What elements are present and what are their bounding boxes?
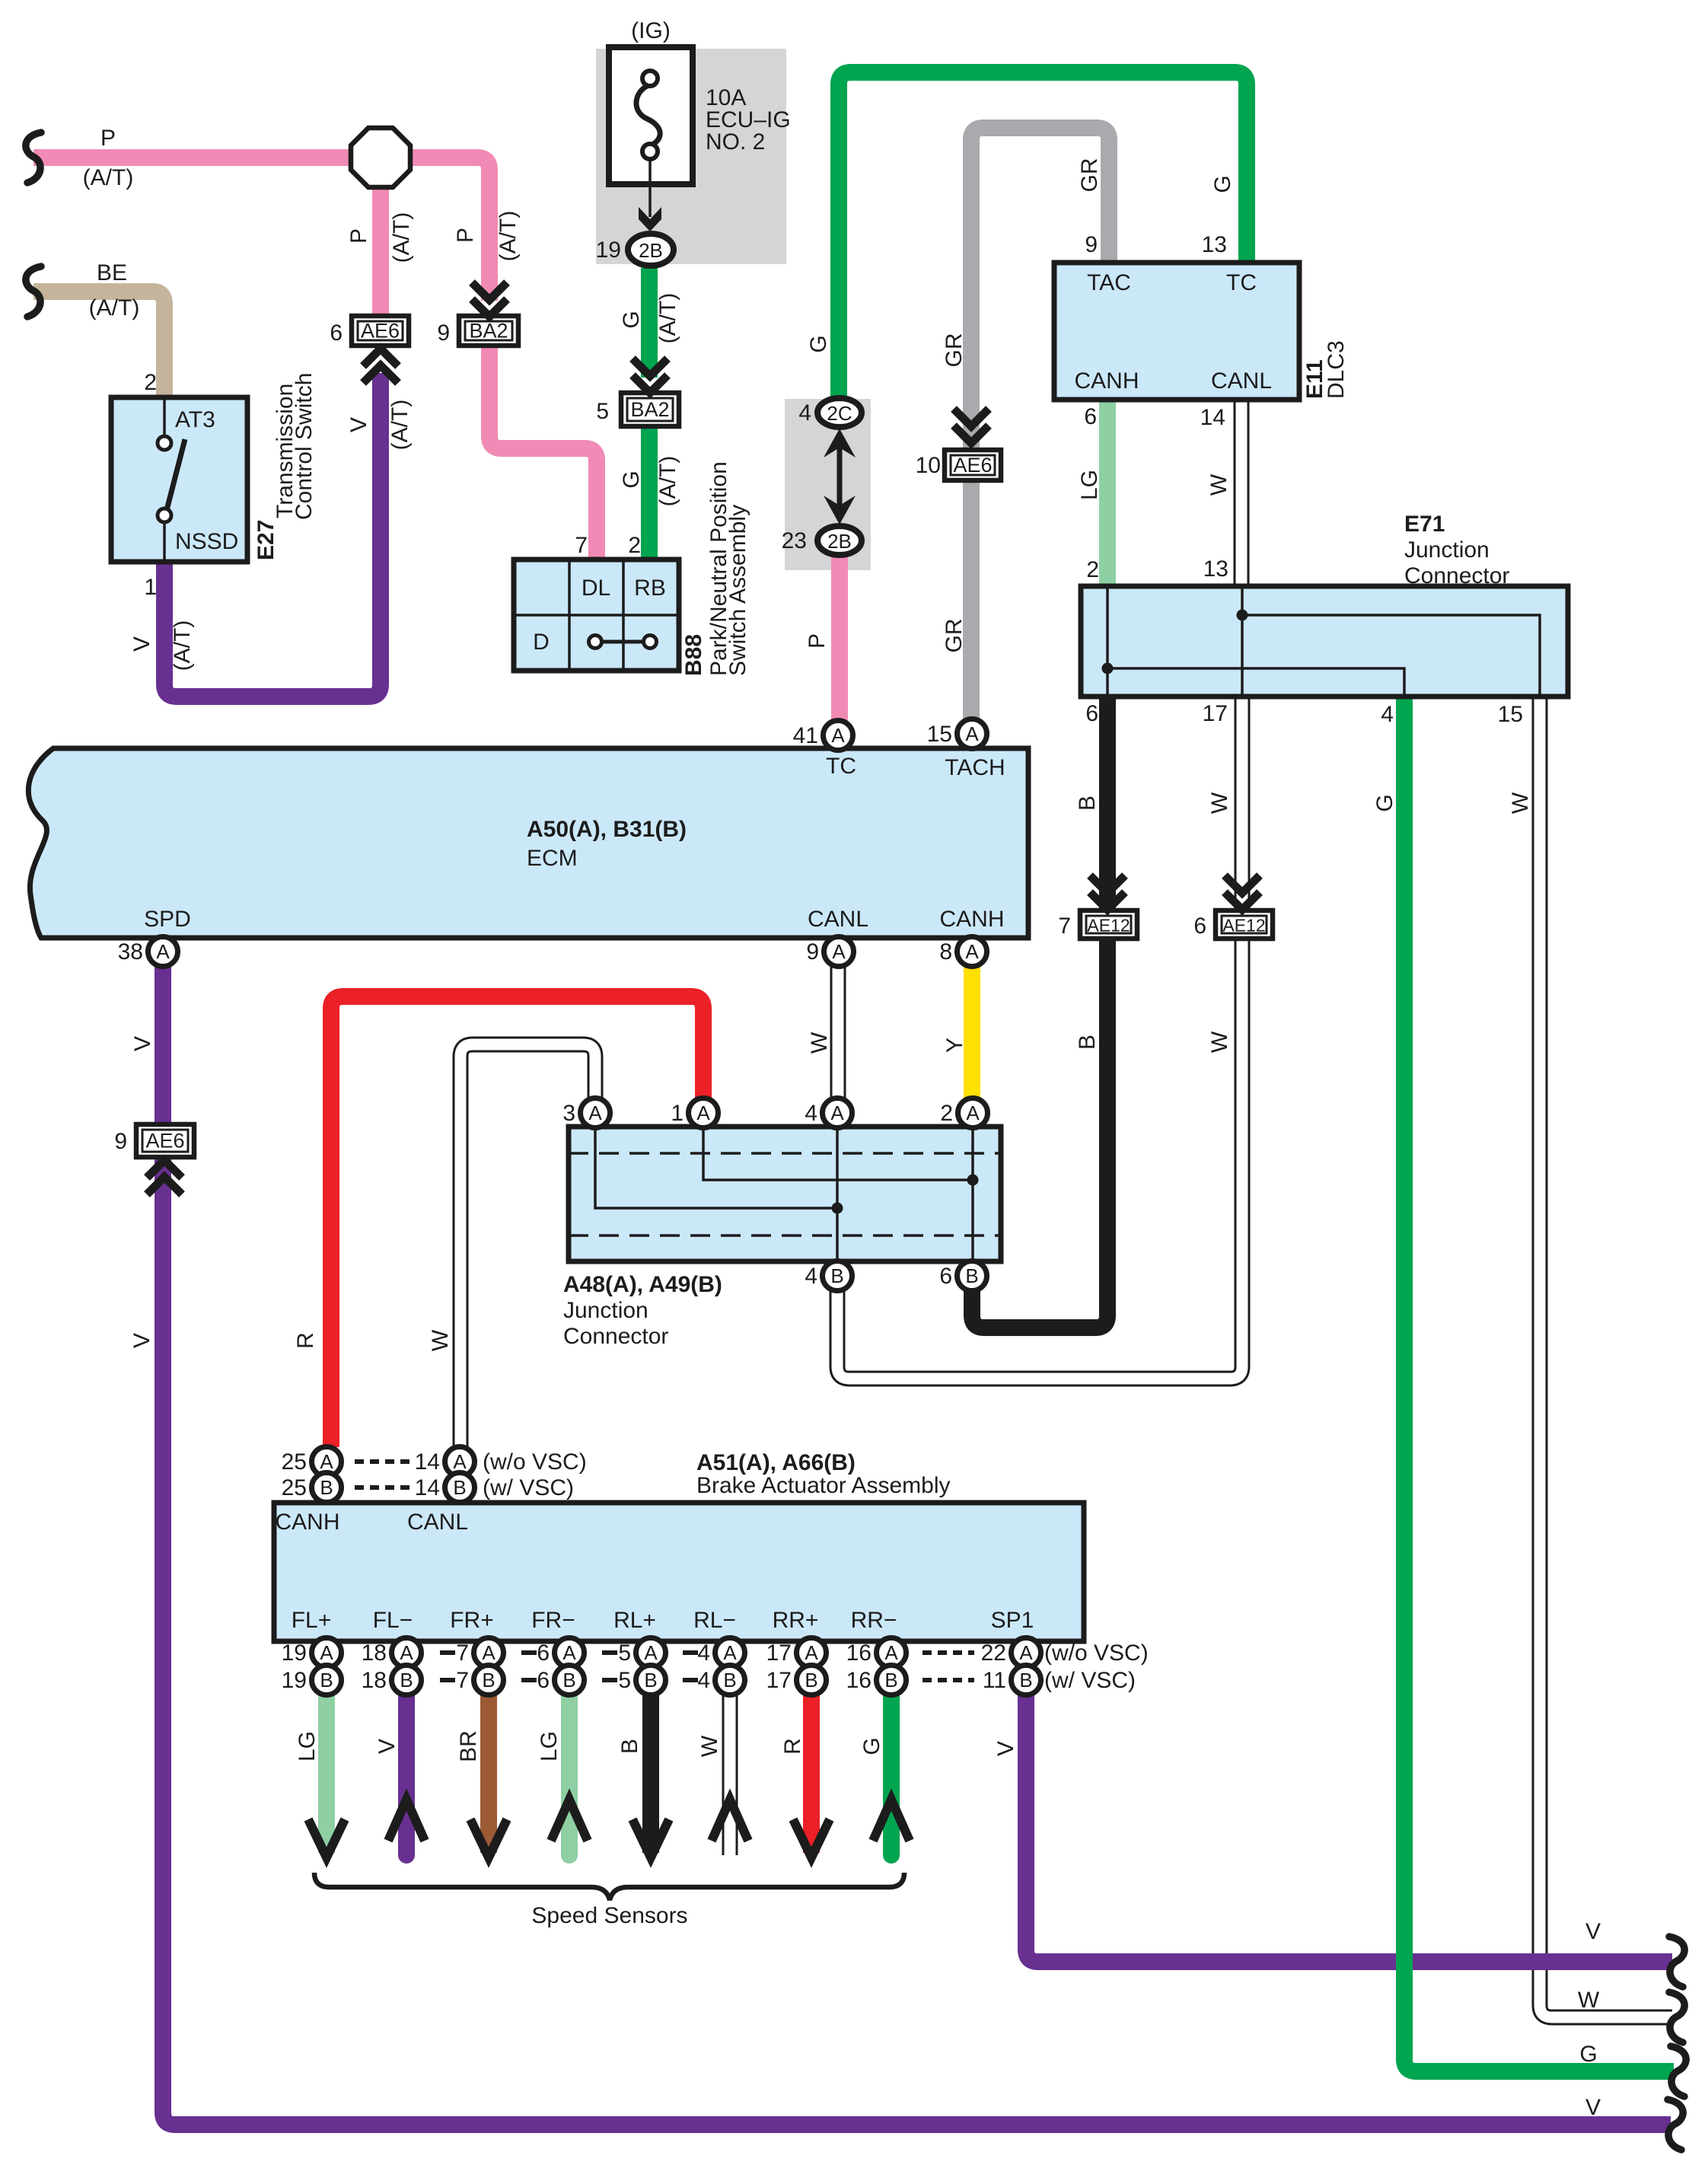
svg-text:A: A (965, 722, 979, 745)
wire V from ECM SPD pin 38A through AE6 pin 9 to right edge (163, 966, 1671, 2125)
svg-text:(w/ VSC): (w/ VSC) (483, 1475, 574, 1500)
dash 7A-6A B row (521, 1678, 537, 1682)
dash 6A-5A B row (602, 1678, 617, 1682)
wire P (A/T) from octagon down to connector AE6 pin 6 (372, 187, 389, 316)
wire BR from A51 FR+ pin 7B to speed sensor (480, 1695, 497, 1853)
A51 FR- pin 6 A (537, 1638, 584, 1668)
svg-text:6: 6 (1193, 914, 1206, 939)
svg-text:GR: GR (942, 619, 967, 653)
svg-text:TACH: TACH (945, 755, 1005, 780)
connector AE6 pin 6 box (352, 316, 409, 346)
brake actuator assembly A51/A66 box (274, 1503, 1084, 1641)
svg-text:2: 2 (628, 533, 641, 558)
svg-text:3: 3 (562, 1101, 575, 1126)
svg-text:AE12: AE12 (1222, 916, 1265, 936)
svg-text:A: A (644, 1641, 658, 1664)
svg-text:W: W (428, 1329, 453, 1351)
svg-text:18: 18 (362, 1640, 387, 1666)
svg-text:6: 6 (330, 320, 343, 346)
svg-text:A: A (830, 1102, 844, 1124)
A51 RL+ pin 5 B (618, 1666, 665, 1695)
svg-text:V: V (129, 1333, 155, 1348)
fuse output lead (648, 159, 652, 217)
svg-text:V: V (374, 1739, 400, 1754)
svg-text:CANL: CANL (808, 907, 868, 932)
wire GR from E11 pin 9 TAC to connector AE6 pin 10 and ECM pin 15 (971, 128, 1109, 719)
svg-text:4: 4 (697, 1668, 710, 1693)
connector oval 4 2C (817, 398, 862, 427)
B88 switch link (595, 640, 650, 644)
svg-text:Junction: Junction (1404, 537, 1490, 563)
svg-text:V: V (129, 636, 155, 652)
svg-text:(A/T): (A/T) (389, 212, 414, 263)
svg-text:Connector: Connector (1404, 563, 1509, 588)
svg-text:B: B (482, 1669, 495, 1692)
E27 pin 1 internal stub (163, 522, 166, 562)
svg-text:B: B (805, 1669, 817, 1692)
svg-text:SPD: SPD (144, 907, 191, 932)
svg-text:Y: Y (942, 1038, 967, 1053)
svg-text:AE6: AE6 (361, 320, 400, 343)
svg-text:P: P (805, 633, 830, 649)
svg-text:LG: LG (537, 1731, 562, 1762)
E71 internal bus pin13-pin17 (1241, 586, 1244, 697)
svg-text:7: 7 (456, 1640, 469, 1666)
connector AE12 pin 6 box (1216, 910, 1273, 939)
A51 RL- pin 4 B (697, 1666, 744, 1695)
svg-text:B: B (320, 1669, 333, 1692)
svg-text:A48(A), A49(B): A48(A), A49(B) (563, 1272, 722, 1297)
wire break squiggle V right upper (1669, 1937, 1684, 1987)
svg-text:A: A (966, 1102, 980, 1124)
svg-text:B88: B88 (681, 634, 706, 676)
A48 pin 4 A (805, 1098, 852, 1128)
svg-text:(A/T): (A/T) (655, 293, 680, 344)
A48 internal link 4A-4B (836, 1127, 839, 1261)
ECM pin 15 A (927, 719, 987, 749)
wire V (A/T) from E27 pin 1 to connector AE6 pin 6 (164, 373, 381, 697)
B88 grid column line 1 (568, 560, 571, 671)
fuse 10A ECU-IG NO.2 body (609, 47, 693, 184)
svg-text:BA2: BA2 (630, 398, 669, 421)
svg-text:17: 17 (1203, 701, 1228, 726)
svg-text:Speed Sensors: Speed Sensors (531, 1903, 687, 1928)
svg-text:41: 41 (793, 723, 818, 748)
svg-text:RR−: RR− (851, 1608, 897, 1633)
wire W from A51 RL- pin 4B to speed sensor (722, 1695, 738, 1855)
svg-text:5: 5 (596, 399, 609, 424)
connector AE12 pin 7 box (1080, 910, 1137, 939)
svg-text:Control Switch: Control Switch (292, 373, 317, 520)
A48 pin 2 A (940, 1098, 987, 1128)
svg-text:7: 7 (575, 533, 588, 558)
A51 RL+ pin 5 A (618, 1638, 665, 1668)
svg-text:4: 4 (805, 1101, 817, 1126)
svg-text:A: A (320, 1450, 333, 1473)
svg-text:Junction: Junction (563, 1298, 648, 1323)
svg-text:6: 6 (1084, 404, 1097, 429)
park/neutral position switch B88 box (514, 560, 679, 671)
svg-text:2B: 2B (827, 530, 852, 553)
svg-text:6: 6 (537, 1668, 550, 1693)
svg-text:CANL: CANL (1211, 368, 1272, 394)
double chevron into AE6 pin 10 (954, 409, 989, 443)
svg-text:38: 38 (118, 939, 143, 965)
svg-text:CANH: CANH (275, 1510, 339, 1535)
svg-text:DLC3: DLC3 (1324, 340, 1349, 399)
A48 pin 4 B (805, 1261, 852, 1291)
A51 pin 14 A (415, 1447, 475, 1477)
svg-text:D: D (533, 630, 550, 655)
svg-text:G: G (1372, 794, 1397, 811)
svg-text:A: A (831, 724, 845, 747)
dash 6A-5A (602, 1650, 617, 1655)
speed sensor arrow RR+ (793, 1819, 830, 1857)
speed sensor arrow RL+ (633, 1819, 669, 1857)
double chevron into BA2 pin 5 (633, 359, 668, 393)
svg-text:(A/T): (A/T) (655, 456, 680, 507)
svg-text:B: B (1075, 1035, 1100, 1050)
svg-text:V: V (130, 1036, 155, 1051)
dash 18A-7A B row (440, 1678, 455, 1682)
B88 switch contact right (644, 636, 657, 649)
svg-text:(w/o VSC): (w/o VSC) (1044, 1640, 1149, 1666)
svg-text:A: A (320, 1641, 333, 1664)
wire G from E71 pin 4 to right edge (1404, 697, 1674, 2071)
A51 FR- pin 6 B (537, 1666, 584, 1695)
wire P (A/T) from left edge to octagon junction (33, 149, 351, 166)
svg-text:10: 10 (916, 453, 941, 478)
svg-text:B: B (1075, 796, 1100, 811)
speed sensor arrow RR- (873, 1800, 910, 1841)
wire BE (A/T) from left edge to E27 pin 2 (33, 292, 164, 397)
svg-text:P: P (100, 126, 116, 151)
svg-text:B: B (884, 1669, 897, 1692)
E27 switch upper contact (158, 436, 171, 450)
A48 pin 6 B (939, 1261, 986, 1291)
svg-text:A50(A), B31(B): A50(A), B31(B) (527, 817, 687, 842)
svg-text:23: 23 (782, 528, 807, 553)
E27 switch blade (166, 439, 185, 513)
wire break squiggle G right (1671, 2046, 1686, 2096)
svg-text:14: 14 (1200, 405, 1225, 430)
wire G from A51 RR- pin 16B to speed sensor (883, 1695, 900, 1855)
octagon junction on wire P (351, 128, 410, 187)
B88 grid row line (514, 614, 679, 617)
svg-text:AE12: AE12 (1087, 916, 1130, 936)
ECM pin 9 A (806, 937, 853, 967)
svg-text:NO. 2: NO. 2 (706, 129, 765, 155)
E71 internal branch to pin 4 (1107, 668, 1404, 697)
wire break squiggle V right lower (1668, 2100, 1683, 2150)
dashes A51 16B-11B (923, 1678, 974, 1682)
A48 dashed bus lower (569, 1234, 1001, 1237)
wire break squiggle P left (26, 132, 41, 183)
A51 FL+ pin 19 A (282, 1638, 342, 1668)
wire W from E71 pin 15 to right edge (1540, 697, 1672, 2017)
svg-text:W: W (1207, 792, 1232, 814)
data link connector E11 DLC3 box (1054, 263, 1299, 400)
svg-text:AE6: AE6 (145, 1130, 184, 1153)
svg-text:AE6: AE6 (953, 454, 992, 477)
E71 junction dot A (1102, 663, 1114, 674)
svg-text:25: 25 (282, 1475, 307, 1500)
svg-text:AT3: AT3 (175, 407, 215, 432)
svg-text:GR: GR (942, 333, 967, 368)
A48 junction dot 2A (967, 1175, 979, 1186)
B88 grid column line 2 (622, 560, 625, 671)
svg-text:W: W (697, 1735, 722, 1757)
A51 SP1 pin 22 A (981, 1638, 1041, 1668)
svg-text:2: 2 (1086, 557, 1099, 582)
svg-text:4: 4 (697, 1640, 710, 1666)
svg-text:RB: RB (634, 576, 666, 601)
double chevron into AE6 pin 9 (147, 1160, 182, 1194)
svg-text:CANL: CANL (407, 1510, 468, 1535)
fuse element curve (636, 85, 660, 145)
svg-text:RL+: RL+ (613, 1608, 656, 1633)
svg-text:B: B (453, 1476, 466, 1499)
dashes A51 16A-22A (923, 1650, 974, 1655)
svg-text:E71: E71 (1404, 512, 1445, 537)
svg-text:(A/T): (A/T) (387, 400, 413, 451)
svg-text:LG: LG (1077, 470, 1102, 500)
svg-text:2C: 2C (827, 402, 852, 425)
speed sensors brace (314, 1873, 904, 1900)
svg-text:18: 18 (362, 1668, 387, 1693)
wire G (A/T) from BA2 pin 5 to B88 pin 2 (641, 426, 658, 560)
svg-text:7: 7 (1058, 914, 1071, 939)
svg-text:E27: E27 (253, 520, 279, 560)
double chevron into AE6 pin 6 (363, 349, 398, 383)
fuse block shading (596, 49, 786, 264)
svg-text:A: A (453, 1450, 467, 1473)
svg-text:G: G (1210, 175, 1235, 193)
svg-text:G: G (619, 470, 644, 488)
double chevron into BA2 pin 9 (472, 282, 507, 317)
svg-text:FR+: FR+ (450, 1608, 494, 1633)
svg-text:1: 1 (144, 575, 157, 600)
wire R from A48 pin 1A to A51 CANH pin 25 (331, 996, 703, 1447)
svg-text:R: R (293, 1332, 318, 1349)
A48 pin 1 A (671, 1098, 718, 1128)
svg-text:B: B (320, 1476, 333, 1499)
svg-text:Connector: Connector (563, 1324, 668, 1349)
A51 pin 14 B (415, 1473, 475, 1503)
2C arrowhead up (824, 429, 856, 458)
svg-text:TC: TC (1226, 270, 1257, 295)
wire W from A48 pin 3A to A51 CANL pin 14 (460, 1044, 595, 1447)
svg-text:A: A (832, 940, 846, 963)
connector AE6 pin 9 box (136, 1124, 194, 1157)
svg-text:RL−: RL− (693, 1608, 736, 1633)
svg-text:17: 17 (766, 1668, 792, 1693)
E71 internal branch to pin 15 (1242, 615, 1540, 697)
svg-text:14: 14 (415, 1449, 440, 1475)
A51 FL- pin 18 A (362, 1638, 422, 1668)
wire P from junction 2B to ECM pin 41 (831, 556, 848, 721)
connector BA2 pin 5 box (621, 393, 679, 426)
svg-text:22: 22 (981, 1640, 1006, 1666)
dash 5A-4A B row (683, 1678, 698, 1682)
speed sensor arrow RL- (712, 1800, 748, 1841)
wire LG from A51 FR- pin 6B to speed sensor (561, 1695, 578, 1855)
A48 internal link 2A-6B (971, 1127, 974, 1261)
dash 18A-7A (440, 1650, 455, 1655)
svg-text:FR−: FR− (531, 1608, 575, 1633)
svg-text:W: W (1207, 1031, 1232, 1053)
A51 pin 25 A (282, 1447, 342, 1477)
svg-text:A51(A), A66(B): A51(A), A66(B) (696, 1450, 856, 1475)
svg-text:5: 5 (618, 1668, 631, 1693)
svg-text:A: A (400, 1641, 413, 1664)
svg-text:G: G (806, 335, 831, 352)
E71 internal bus pin2-pin6 (1106, 586, 1109, 697)
B88 switch contact left (589, 636, 602, 649)
svg-text:2: 2 (144, 370, 157, 395)
ECM A50(A) B31(B) box with torn left edge (28, 748, 1028, 938)
svg-text:R: R (780, 1738, 805, 1755)
svg-text:W: W (807, 1031, 832, 1054)
transmission control switch E27 box (111, 397, 247, 562)
svg-text:A: A (562, 1641, 576, 1664)
svg-text:G: G (1579, 2042, 1597, 2067)
svg-text:G: G (859, 1737, 884, 1755)
svg-text:B: B (562, 1669, 575, 1692)
svg-text:(IG): (IG) (631, 18, 671, 43)
A51 pin 25 B (282, 1473, 342, 1503)
svg-text:19: 19 (282, 1668, 307, 1693)
fuse lead arrowhead (639, 207, 661, 231)
A51 FR+ pin 7 B (456, 1666, 503, 1695)
svg-text:16: 16 (846, 1640, 872, 1666)
wire P (A/T) from BA2 pin 9 to B88 pin 7 (489, 346, 597, 560)
dashes A51 25B-14B (355, 1485, 409, 1490)
svg-text:B: B (617, 1739, 642, 1754)
svg-text:A: A (884, 1641, 898, 1664)
svg-text:16: 16 (846, 1668, 872, 1693)
svg-text:LG: LG (295, 1731, 320, 1762)
dash 5A-4A (683, 1650, 698, 1655)
svg-text:19: 19 (596, 238, 621, 263)
svg-text:V: V (1585, 2095, 1601, 2120)
A51 FL- pin 18 B (362, 1666, 422, 1695)
svg-text:P: P (346, 228, 371, 244)
svg-text:13: 13 (1203, 556, 1228, 582)
junction connector A48/A49 box (569, 1127, 1001, 1261)
svg-text:W: W (1578, 1988, 1600, 2013)
svg-text:B: B (830, 1264, 843, 1287)
svg-text:2: 2 (940, 1101, 953, 1126)
svg-text:V: V (346, 417, 371, 432)
wire G from junction 2C up over to E11 DLC3 pin 13 TC (839, 72, 1247, 397)
svg-text:6: 6 (537, 1640, 550, 1666)
svg-text:W: W (1206, 473, 1232, 496)
svg-text:11: 11 (983, 1668, 1006, 1693)
svg-text:6: 6 (939, 1264, 952, 1289)
A51 FR+ pin 7 A (456, 1638, 503, 1668)
connector oval 23 2B (817, 526, 862, 555)
svg-text:(A/T): (A/T) (83, 165, 134, 190)
wire break squiggle W right (1669, 1992, 1684, 2042)
svg-text:A: A (156, 940, 170, 963)
fuse element top contact (642, 71, 658, 86)
wire V from A51 FL- pin 18B to speed sensor (398, 1695, 415, 1855)
connector AE6 pin 10 box (945, 450, 1001, 480)
svg-text:A: A (696, 1102, 710, 1124)
A51 SP1 pin 11 B (983, 1666, 1041, 1695)
svg-text:FL−: FL− (373, 1608, 413, 1633)
svg-text:A: A (965, 940, 979, 963)
E71 junction dot B (1237, 610, 1248, 621)
A48 dashed bus upper (569, 1152, 1001, 1155)
svg-text:8: 8 (939, 939, 952, 965)
A51 RR- pin 16 A (846, 1638, 907, 1668)
svg-text:13: 13 (1202, 232, 1227, 257)
connector 2C/2B link arrow (837, 438, 843, 516)
wire B from A51 RL+ pin 5B to speed sensor (642, 1695, 659, 1853)
svg-text:9: 9 (1085, 232, 1098, 257)
A51 RR+ pin 17 A (766, 1638, 827, 1668)
svg-text:7: 7 (456, 1668, 469, 1693)
svg-text:14: 14 (415, 1475, 440, 1500)
svg-text:CANH: CANH (1074, 368, 1139, 394)
svg-text:SP1: SP1 (991, 1608, 1034, 1633)
A48 junction dot 4A (832, 1203, 843, 1214)
svg-text:B: B (400, 1669, 413, 1692)
svg-text:B: B (1019, 1669, 1032, 1692)
svg-text:19: 19 (282, 1640, 307, 1666)
speed sensor arrow FL- (388, 1800, 425, 1841)
wire W from E71 pin 17 to A48 pin 4B (837, 697, 1242, 1379)
wire P (A/T) from octagon to connector BA2 pin 9 (411, 158, 489, 301)
E27 pin 2 internal stub (163, 397, 166, 436)
svg-text:A: A (482, 1641, 496, 1664)
svg-text:W: W (1508, 792, 1533, 814)
A51 RR+ pin 17 B (766, 1666, 827, 1695)
wire break squiggle BE left (26, 266, 41, 317)
svg-text:(A/T): (A/T) (170, 620, 195, 671)
svg-text:4: 4 (1381, 702, 1394, 727)
wire Y from ECM CANH pin 8A to A48 pin 2A (964, 966, 980, 1098)
wire LG from A51 FL+ pin 19B to speed sensor (318, 1695, 335, 1853)
svg-text:A: A (588, 1102, 602, 1124)
wire LG from E11 CANH pin 6 to E71 pin 2 (1099, 400, 1116, 586)
svg-text:B: B (965, 1264, 978, 1287)
svg-text:B: B (723, 1669, 736, 1692)
dashes A51 25A-14A (355, 1459, 409, 1464)
A51 RL- pin 4 A (697, 1638, 744, 1668)
wire G (A/T) from fuse 2B to connector BA2 pin 5 (641, 268, 658, 378)
svg-text:V: V (993, 1741, 1018, 1756)
svg-text:4: 4 (798, 400, 811, 426)
dash 7A-6A (521, 1650, 537, 1655)
svg-text:(A/T): (A/T) (496, 211, 521, 262)
svg-text:1: 1 (671, 1101, 684, 1126)
svg-text:9: 9 (114, 1129, 127, 1154)
svg-text:TAC: TAC (1087, 270, 1131, 295)
svg-text:GR: GR (1077, 158, 1102, 193)
double chevron into AE12 pin 7 (1090, 875, 1125, 910)
connector 2C/2B shading (785, 399, 871, 570)
svg-text:NSSD: NSSD (175, 529, 238, 554)
svg-text:25: 25 (282, 1449, 307, 1475)
wire W from E11 CANL pin 14 to E71 pin 13 (1234, 400, 1250, 586)
svg-text:6: 6 (1085, 701, 1098, 726)
svg-text:A: A (805, 1641, 818, 1664)
wire R from A51 RR+ pin 17B to speed sensor (803, 1695, 820, 1853)
svg-text:Switch Assembly: Switch Assembly (725, 505, 750, 676)
